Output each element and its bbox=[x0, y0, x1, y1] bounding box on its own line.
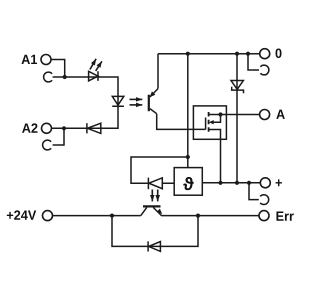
node top rail to theta branch bbox=[186, 52, 190, 56]
wire plus plug lead bbox=[249, 183, 259, 200]
diode D4 bypass bbox=[149, 242, 161, 252]
node top rail to 0 plug bbox=[246, 52, 250, 56]
label 0 bbox=[276, 48, 282, 58]
wire A2 leads bbox=[52, 128, 65, 145]
optocoupler U1 LED bbox=[112, 96, 124, 106]
label A2 bbox=[22, 123, 37, 132]
MOSFET Q1 channel dashes bbox=[208, 112, 210, 132]
label theta bbox=[183, 177, 193, 190]
zener diode D2 bbox=[231, 81, 243, 90]
MOSFET Q1 body arrow bbox=[213, 115, 221, 123]
optocoupler U2 light arrows bbox=[151, 190, 153, 202]
terminal 0 plug arc bbox=[260, 65, 269, 75]
node theta branch to opto LED bbox=[186, 155, 190, 159]
label plus bbox=[276, 179, 282, 186]
wire A1 leads bbox=[51, 60, 65, 78]
thermal sensor U3 box bbox=[174, 168, 202, 196]
MOSFET Q1 box bbox=[193, 106, 226, 139]
terminal 0 bbox=[260, 49, 270, 59]
transistor T1 emitter bbox=[150, 109, 157, 114]
transistor T2 emitter with arrow bbox=[153, 207, 161, 215]
wire T1 emitter to MOSFET gate bbox=[157, 114, 206, 130]
terminal A1 plug arc bbox=[44, 72, 53, 82]
node A2 junction bbox=[62, 126, 66, 130]
transistor T2 output base bar bbox=[143, 205, 161, 207]
terminal plus plug arc bbox=[260, 195, 269, 205]
label Err bbox=[276, 212, 293, 221]
node Q1 drain junction bbox=[218, 112, 222, 116]
MOSFET Q1 gate bar bbox=[205, 118, 207, 130]
LED D5 indicator bbox=[89, 71, 98, 81]
wire top rail bbox=[158, 53, 260, 55]
node top rail to zener bbox=[235, 52, 239, 56]
wire Err bbox=[161, 215, 259, 217]
optocoupler U1 light arrows bbox=[130, 98, 143, 100]
LED D5 emission arrows bbox=[90, 59, 96, 70]
terminal A2 bbox=[42, 123, 52, 133]
wire A1 branch through LED1 and opto LED down to A2 branch bbox=[64, 77, 118, 128]
transistor T1 collector with arrow bbox=[150, 89, 158, 97]
transistor T2 collector bbox=[141, 207, 147, 215]
node plus rail source bbox=[218, 181, 222, 185]
diode D1 reverse polarity bbox=[87, 123, 101, 133]
wire theta branch vertical bbox=[187, 54, 189, 168]
node A1 junction bbox=[63, 75, 67, 79]
wire 0 plug lead bbox=[248, 54, 259, 70]
node plus rail zener bbox=[235, 181, 239, 185]
node 24V to bypass branch bbox=[110, 214, 114, 218]
terminal 24V bbox=[43, 211, 53, 221]
node Err bypass junction bbox=[196, 214, 200, 218]
wire plus rail bbox=[202, 182, 260, 184]
node plus rail plug bbox=[247, 181, 251, 185]
label A1 bbox=[21, 55, 37, 64]
wire 24V rail bbox=[53, 215, 141, 217]
label A bbox=[276, 110, 285, 119]
terminal plus bbox=[260, 178, 270, 188]
terminal Err bbox=[259, 211, 269, 221]
MOSFET Q1 drain wire to terminal A bbox=[209, 114, 260, 116]
optocoupler U2 LED bbox=[149, 178, 162, 189]
terminal A1 bbox=[41, 55, 51, 65]
zener diode D2 wire bbox=[236, 54, 238, 183]
MOSFET Q1 source wire down to plus rail bbox=[209, 130, 221, 183]
label +24V bbox=[7, 210, 36, 219]
wire to optocoupler U2 LED bbox=[131, 157, 188, 183]
terminal A bbox=[260, 110, 270, 120]
wire bypass branch bbox=[112, 216, 198, 247]
transistor T1 phototransistor base bar bbox=[148, 95, 150, 112]
terminal A2 plug arc bbox=[43, 140, 52, 150]
wire T1 collector riser bbox=[157, 54, 159, 89]
